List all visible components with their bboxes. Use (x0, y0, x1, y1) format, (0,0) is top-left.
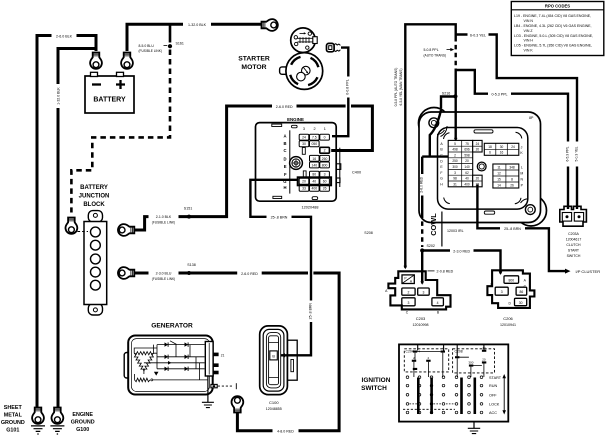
svg-text:12: 12 (497, 172, 501, 176)
svg-text:L: L (521, 166, 523, 170)
svg-text:JUNCTION: JUNCTION (79, 194, 110, 200)
svg-text:8-5.0 BLU: 8-5.0 BLU (139, 44, 155, 48)
svg-text:SWITCH: SWITCH (567, 254, 581, 258)
svg-text:GROUND: GROUND (71, 420, 95, 426)
label 2-6.0 RED (starter feed) (272, 103, 297, 109)
svg-text:2: 2 (313, 127, 315, 131)
svg-text:BATTERY: BATTERY (80, 185, 108, 191)
svg-text:GROUND: GROUND (1, 420, 25, 426)
svg-text:5-0.8 PPL: 5-0.8 PPL (424, 48, 439, 52)
generator terminal bar (205, 342, 213, 377)
ignition switch ground (473, 422, 475, 429)
svg-text:86: 86 (520, 290, 524, 294)
svg-text:8: 8 (511, 178, 513, 182)
svg-text:(FUSIBLE LINK): (FUSIBLE LINK) (152, 277, 175, 281)
svg-text:ACC: ACC (489, 411, 497, 415)
svg-text:C400: C400 (352, 170, 361, 174)
svg-text:S208: S208 (364, 231, 372, 235)
svg-text:30: 30 (519, 301, 523, 305)
svg-text:20: 20 (482, 358, 486, 362)
svg-text:98: 98 (453, 177, 457, 181)
svg-text:20: 20 (302, 180, 306, 184)
svg-text:E: E (284, 164, 287, 169)
svg-text:16: 16 (500, 151, 504, 155)
terminal battery positive (121, 53, 133, 69)
svg-text:IGNITION: IGNITION (362, 377, 391, 384)
svg-text:2-1.0 BLK: 2-1.0 BLK (156, 215, 172, 219)
wire fusible link battery to junction block (dashed) (169, 24, 172, 42)
svg-text:6-5.8 YEL (MAN TRANS): 6-5.8 YEL (MAN TRANS) (399, 69, 403, 106)
label 1-32.0 BLK vertical (55, 84, 61, 108)
svg-text:VIN H: VIN H (524, 39, 534, 43)
svg-text:C204: C204 (406, 350, 414, 354)
label 2-6.0 RED vertical (cowl feed) (420, 174, 425, 196)
splice S138 (187, 271, 191, 275)
battery (85, 72, 134, 113)
svg-text:L19 - ENGINE, 7.4L (454 CID) V: L19 - ENGINE, 7.4L (454 CID) V8 GAS ENGI… (514, 14, 591, 18)
svg-text:(AUTO TRANS): (AUTO TRANS) (424, 53, 447, 57)
label 2-1.0 BLK fusible link (149, 214, 179, 219)
svg-text:75: 75 (465, 142, 469, 146)
svg-text:S151: S151 (184, 207, 192, 211)
svg-text:25-.8 BRN: 25-.8 BRN (271, 216, 288, 220)
svg-text:140: 140 (464, 165, 470, 169)
svg-text:3: 3 (454, 171, 456, 175)
svg-text:20: 20 (476, 148, 480, 152)
connector C203 (388, 271, 450, 309)
bulkhead left pin grid (440, 140, 482, 186)
svg-text:D: D (283, 156, 286, 161)
svg-text:40: 40 (312, 180, 316, 184)
svg-text:498: 498 (452, 148, 458, 152)
svg-text:P: P (404, 277, 406, 281)
svg-text:F: F (284, 172, 287, 177)
svg-text:62: 62 (465, 171, 469, 175)
svg-text:800: 800 (322, 163, 328, 167)
svg-text:SHEET: SHEET (4, 405, 23, 411)
svg-text:C208: C208 (455, 350, 463, 354)
wire crossing halos (346, 103, 351, 109)
svg-text:S161: S161 (176, 42, 184, 46)
terminal battery negative (90, 53, 102, 69)
svg-text:LO5 - ENGINE, 5.7L (350 CID) V: LO5 - ENGINE, 5.7L (350 CID) V8 GAS ENGI… (514, 44, 592, 48)
svg-text:3: 3 (407, 301, 409, 305)
svg-text:1-32.0 BLK: 1-32.0 BLK (188, 23, 207, 27)
svg-text:2-3.0 BLU: 2-3.0 BLU (156, 272, 172, 276)
svg-text:VIN K: VIN K (524, 49, 534, 53)
generator rectifier diodes (157, 344, 204, 346)
wire RED to C203 (421, 251, 423, 284)
bulkhead center hole (477, 162, 486, 171)
generator stator delta winding (134, 352, 153, 355)
svg-text:VIN N: VIN N (524, 19, 534, 23)
ignition switch (399, 344, 508, 421)
wire bulkhead to I/P cluster (BRN) (477, 185, 566, 272)
svg-text:2-0.8 RED: 2-0.8 RED (437, 270, 454, 274)
connector C206 (487, 270, 534, 308)
svg-text:3: 3 (501, 290, 503, 294)
svg-text:CLUTCH: CLUTCH (566, 243, 581, 247)
label 2-3.0 RED (450, 248, 474, 254)
bulkhead connector shell (419, 108, 450, 139)
svg-text:140: 140 (311, 163, 317, 167)
svg-text:31: 31 (453, 182, 457, 186)
terminal generator output (232, 396, 244, 412)
svg-text:800: 800 (508, 279, 514, 283)
svg-text:348: 348 (509, 166, 515, 170)
svg-text:LB4 - ENGINE, 4.3L (262 CID) V: LB4 - ENGINE, 4.3L (262 CID) V6 GAS ENGI… (514, 24, 592, 28)
bulkhead bolt ear top-left (429, 118, 439, 128)
svg-text:S202: S202 (427, 244, 435, 248)
connector C203A clutch start switch (560, 206, 587, 226)
svg-text:0-0.8 PPL: 0-0.8 PPL (346, 79, 350, 95)
svg-text:26: 26 (323, 187, 327, 191)
wire S216 stub into bulkhead, feed to row C and RED distribution (441, 97, 455, 109)
svg-text:14: 14 (497, 184, 501, 188)
label 2-6.0 RED (generator feed) (237, 270, 262, 276)
label 0-0.8 PPL vertical (345, 77, 351, 98)
svg-text:4: 4 (437, 301, 439, 305)
label 6-5.3 PPL vertical (565, 142, 571, 167)
svg-text:26: 26 (510, 184, 514, 188)
svg-text:21: 21 (221, 354, 225, 358)
svg-text:OFF: OFF (489, 393, 497, 397)
label 25-.8 BRN vertical (308, 301, 314, 323)
svg-text:2-3.0 RED: 2-3.0 RED (453, 249, 470, 253)
svg-text:STARTER: STARTER (238, 56, 270, 63)
svg-text:MOTOR: MOTOR (241, 64, 266, 71)
svg-text:6: 6 (489, 151, 491, 155)
svg-text:H: H (283, 185, 286, 190)
svg-text:LO3 - ENGINE, 5.0-L (305 CID): LO3 - ENGINE, 5.0-L (305 CID) V8 GAS ENG… (514, 34, 593, 38)
splice S202 (420, 248, 424, 252)
svg-text:START: START (489, 376, 502, 380)
svg-text:11: 11 (497, 166, 501, 170)
svg-text:G: G (440, 177, 443, 181)
svg-text:SWITCH: SWITCH (361, 385, 387, 392)
svg-text:24: 24 (302, 136, 306, 140)
wire PPL branch to clutch switch (456, 70, 568, 209)
svg-text:60: 60 (323, 180, 327, 184)
generator S terminal (211, 384, 217, 387)
svg-text:I/P CLUSTER: I/P CLUSTER (576, 269, 601, 274)
svg-text:598: 598 (464, 153, 470, 157)
svg-text:260: 260 (322, 157, 328, 161)
svg-text:START: START (568, 248, 580, 252)
svg-text:F: F (440, 171, 442, 175)
svg-text:(FUSIBLE LINK): (FUSIBLE LINK) (139, 49, 162, 53)
svg-text:12003 IRL: 12003 IRL (447, 229, 464, 233)
label 5-0.3 YEL vertical (574, 142, 580, 167)
splice S151 (187, 215, 191, 219)
svg-text:250: 250 (452, 159, 458, 163)
terminal junction block upper right (118, 224, 134, 236)
wire battery negative to engine ground G100 (58, 49, 96, 412)
svg-text:6-5.3 PPL: 6-5.3 PPL (566, 146, 570, 161)
svg-text:2: 2 (407, 291, 409, 295)
bulkhead right pin grid JK (484, 143, 523, 155)
svg-text:400: 400 (311, 187, 317, 191)
svg-text:15: 15 (497, 178, 501, 182)
svg-text:18: 18 (488, 145, 492, 149)
ground G101 (31, 426, 45, 434)
svg-text:12004617: 12004617 (566, 237, 582, 241)
svg-text:S216: S216 (442, 91, 450, 95)
svg-text:696: 696 (464, 148, 470, 152)
svg-text:C203A: C203A (568, 232, 579, 236)
svg-text:2-6.0 RED: 2-6.0 RED (276, 105, 293, 109)
svg-text:(FUSIBLE LINK): (FUSIBLE LINK) (152, 221, 175, 225)
svg-text:2: 2 (454, 153, 456, 157)
svg-text:G101: G101 (6, 427, 19, 433)
svg-text:C206: C206 (503, 316, 513, 321)
svg-text:400: 400 (464, 182, 470, 186)
svg-text:25-.8 BRN: 25-.8 BRN (504, 227, 521, 231)
svg-text:5: 5 (454, 142, 456, 146)
terminal starter battery cable (262, 19, 278, 31)
svg-text:RUN: RUN (489, 384, 497, 388)
splice S161 (168, 44, 172, 48)
svg-text:LOCK: LOCK (489, 403, 500, 407)
svg-text:0: 0 (324, 136, 326, 140)
svg-text:1: 1 (324, 127, 326, 131)
svg-text:24: 24 (511, 145, 515, 149)
svg-text:40: 40 (465, 177, 469, 181)
svg-text:300: 300 (452, 165, 458, 169)
generator field coil (135, 378, 151, 382)
svg-text:7.5: 7.5 (312, 136, 317, 140)
terminal junction block lower right (118, 267, 134, 279)
svg-text:0-5.3 PPL: 0-5.3 PPL (492, 93, 508, 97)
generator ground (207, 376, 209, 402)
label 1-32.0 BLK (183, 21, 211, 27)
label 2-3.0 BLU fusible link (149, 270, 179, 275)
svg-text:2-6.0 RED: 2-6.0 RED (420, 176, 424, 192)
wire RED to C206 (422, 251, 500, 274)
svg-text:BATTERY: BATTERY (93, 97, 126, 104)
svg-text:BLOCK: BLOCK (83, 202, 105, 208)
bulkhead bolt ear bottom-right (525, 205, 535, 215)
wire YEL branch to clutch switch (456, 35, 577, 210)
svg-text:G100: G100 (76, 427, 89, 433)
label 2-0.8 RED (428, 270, 435, 272)
svg-text:20: 20 (476, 177, 480, 181)
svg-text:24: 24 (476, 142, 480, 146)
svg-text:ENGINE: ENGINE (287, 117, 304, 122)
svg-text:16: 16 (312, 157, 316, 161)
svg-text:80: 80 (312, 173, 316, 177)
svg-text:A: A (283, 134, 286, 139)
wire junction block to generator output (130, 273, 340, 431)
generator (124, 353, 130, 379)
bulkhead right pin grid LMNP (493, 164, 524, 188)
terminal sheet metal ground G101 (32, 408, 44, 424)
label 6-0.3 YEL (468, 32, 489, 38)
engine fuse/junction block (256, 117, 362, 210)
svg-text:S138: S138 (187, 263, 195, 267)
svg-text:3: 3 (303, 127, 305, 131)
svg-text:VIN Z: VIN Z (524, 29, 534, 33)
svg-text:050: 050 (311, 142, 317, 146)
label 4-8.0 RED (273, 428, 299, 433)
battery junction block (88, 211, 102, 223)
svg-text:M: M (520, 172, 523, 176)
svg-text:RPO CODES: RPO CODES (545, 3, 570, 8)
label 2-6.0 BLK (52, 33, 77, 39)
terminal starter solenoid S (327, 43, 335, 51)
label 25-.8 BRN (cluster) (500, 226, 525, 232)
svg-text:2-6.0 RED: 2-6.0 RED (241, 272, 258, 276)
svg-text:2-6.0 BLK: 2-6.0 BLK (56, 34, 73, 38)
svg-text:COWL: COWL (429, 213, 438, 236)
svg-text:6-0.3 YEL: 6-0.3 YEL (470, 33, 486, 37)
svg-text:300: 300 (468, 361, 473, 365)
svg-text:C: C (283, 148, 286, 153)
svg-text:C100: C100 (269, 400, 279, 405)
splice S216 (453, 94, 457, 98)
RPO codes table (511, 2, 604, 56)
svg-text:12020488: 12020488 (302, 206, 319, 210)
svg-text:J: J (521, 145, 523, 149)
svg-text:2: 2 (324, 149, 326, 153)
svg-text:4-8.0 RED: 4-8.0 RED (277, 430, 294, 434)
cowl boundary mark (441, 212, 443, 247)
svg-text:8P: 8P (529, 116, 534, 120)
svg-text:12010941: 12010941 (500, 323, 516, 327)
svg-text:30: 30 (302, 142, 306, 146)
svg-text:20: 20 (465, 159, 469, 163)
ground G100 (50, 426, 64, 434)
terminal engine ground G100 (52, 408, 64, 424)
svg-text:12048855: 12048855 (266, 407, 282, 411)
terminal junction block left (66, 218, 78, 234)
svg-text:GENERATOR: GENERATOR (151, 323, 193, 330)
svg-text:3: 3 (422, 291, 424, 295)
svg-text:METAL: METAL (4, 413, 23, 419)
svg-text:25-.8 BRN: 25-.8 BRN (308, 303, 312, 320)
svg-text:C203: C203 (416, 316, 426, 321)
svg-text:0-5.8 PPL (AUTO TRANS): 0-5.8 PPL (AUTO TRANS) (394, 68, 398, 107)
bulkhead inner square (438, 128, 528, 210)
svg-text:3: 3 (324, 173, 326, 177)
wire starter solenoid to fuse block (PPL) (332, 48, 348, 137)
svg-text:12010998: 12010998 (413, 323, 429, 327)
svg-text:5-0.3 YEL: 5-0.3 YEL (575, 146, 579, 161)
label 0-5.3 PPL (488, 91, 511, 97)
wire junction block to engine fuse block feed (130, 106, 373, 230)
starter solenoid (291, 28, 316, 53)
svg-text:33: 33 (302, 187, 306, 191)
wire battery negative to sheet metal ground G101 (37, 36, 96, 412)
wire battery positive cable to starter motor (127, 24, 261, 51)
connector C100 (287, 340, 297, 380)
wire crank trunk C203 to bulkhead via S216 (405, 24, 455, 267)
wire fuse block to generator C100 (gen warning) (250, 180, 311, 355)
label 25-.8 BRN (fuse to gen) (267, 214, 292, 220)
svg-text:B: B (283, 141, 286, 146)
svg-text:ENGINE: ENGINE (72, 412, 93, 418)
svg-text:30: 30 (500, 145, 504, 149)
svg-text:1-32.0 BLK: 1-32.0 BLK (56, 87, 60, 105)
